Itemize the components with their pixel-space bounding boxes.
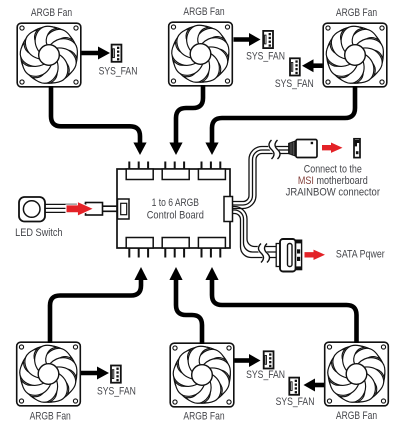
- svg-text:SYS_FAN: SYS_FAN: [99, 65, 138, 77]
- svg-text:MSI motherboard: MSI motherboard: [298, 175, 368, 187]
- SYS_FAN header F: [276, 378, 315, 409]
- arrow bottom-left fan to SYS_FAN: [81, 367, 109, 380]
- arrow bottom-right fan to SYS_FAN: [304, 379, 325, 392]
- board right connector (output): [224, 197, 233, 222]
- svg-text:SYS_FAN: SYS_FAN: [246, 51, 285, 63]
- SYS_FAN header B: [246, 31, 285, 63]
- wire bottom-left fan to board: [50, 267, 148, 343]
- cable break (lower bundle): [259, 244, 270, 263]
- svg-text:SYS_FAN: SYS_FAN: [246, 369, 285, 381]
- svg-text:ARGB Fan: ARGB Fan: [336, 410, 377, 422]
- ARGB fan bottom-middle: [168, 340, 236, 422]
- JRAINBOW plug: [289, 140, 317, 158]
- ARGB fan top-left: [15, 7, 83, 88]
- arrow bottom-middle fan to SYS_FAN: [235, 354, 261, 367]
- LED switch body: [15, 197, 62, 239]
- arrow top-middle fan to SYS_FAN: [234, 33, 261, 46]
- ARGB fan bottom-right: [323, 339, 391, 422]
- ARGB fan bottom-left: [15, 339, 83, 422]
- svg-text:SYS_FAN: SYS_FAN: [275, 78, 314, 90]
- svg-text:JRAINBOW connector: JRAINBOW connector: [286, 187, 381, 199]
- svg-text:1 to 6 ARGB: 1 to 6 ARGB: [152, 197, 199, 209]
- svg-text:Connect to the: Connect to the: [304, 164, 362, 176]
- wires board to JRAINBOW plug: [233, 147, 291, 209]
- note: SATA power text: [336, 249, 385, 261]
- ARGB fan top-right: [321, 7, 389, 88]
- control board body: [117, 169, 230, 248]
- board bottom connector 1 with pins: [126, 238, 153, 258]
- svg-text:ARGB Fan: ARGB Fan: [30, 410, 71, 422]
- SYS_FAN header A: [99, 45, 138, 78]
- svg-text:SATA Pqwer: SATA Pqwer: [336, 249, 385, 261]
- svg-text:ARGB Fan: ARGB Fan: [183, 411, 224, 422]
- red arrow on LED cable: [67, 202, 93, 215]
- svg-text:ARGB Fan: ARGB Fan: [336, 7, 377, 19]
- board top connector 3 with pins: [198, 162, 225, 180]
- wires board to SATA power: [233, 207, 278, 258]
- wire bottom-middle fan to board: [169, 267, 202, 344]
- JRAINBOW header icon: [354, 139, 360, 158]
- wire top-left fan to board: [51, 86, 147, 155]
- ARGB fan top-middle: [167, 6, 235, 87]
- SATA power connector: [276, 239, 301, 272]
- board bottom connector 2 with pins: [162, 238, 189, 258]
- svg-text:Control Board: Control Board: [147, 210, 204, 222]
- board bottom connector 3 with pins: [198, 238, 225, 258]
- svg-text:SYS_FAN: SYS_FAN: [97, 386, 136, 398]
- svg-text:ARGB Fan: ARGB Fan: [183, 6, 224, 18]
- wire bottom-right fan to board: [205, 267, 356, 343]
- LED switch plug: [86, 203, 103, 216]
- red arrow to JRAINBOW header: [322, 143, 343, 153]
- SYS_FAN header C: [275, 58, 314, 90]
- board top connector 2 with pins: [162, 162, 189, 180]
- arrow top-left fan to SYS_FAN: [82, 47, 111, 60]
- svg-text:ARGB Fan: ARGB Fan: [31, 7, 72, 19]
- wire top-right fan to board: [205, 86, 355, 155]
- board top connector 1 with pins: [126, 162, 153, 180]
- note: MSI JRAINBOW text: [286, 164, 381, 199]
- SYS_FAN header E: [246, 351, 285, 381]
- LED switch cable: [45, 204, 86, 212]
- red arrow to SATA power text: [305, 250, 326, 260]
- LED switch cable pins: [103, 206, 118, 211]
- wire top-middle fan to board: [169, 85, 203, 155]
- cable break (upper bundle): [269, 140, 280, 159]
- svg-text:SYS_FAN: SYS_FAN: [276, 396, 315, 408]
- arrow top-right fan to SYS_FAN: [302, 59, 323, 72]
- SYS_FAN header D: [97, 366, 136, 398]
- board left connector (LED switch input): [118, 199, 130, 219]
- svg-text:LED Switch: LED Switch: [15, 227, 62, 239]
